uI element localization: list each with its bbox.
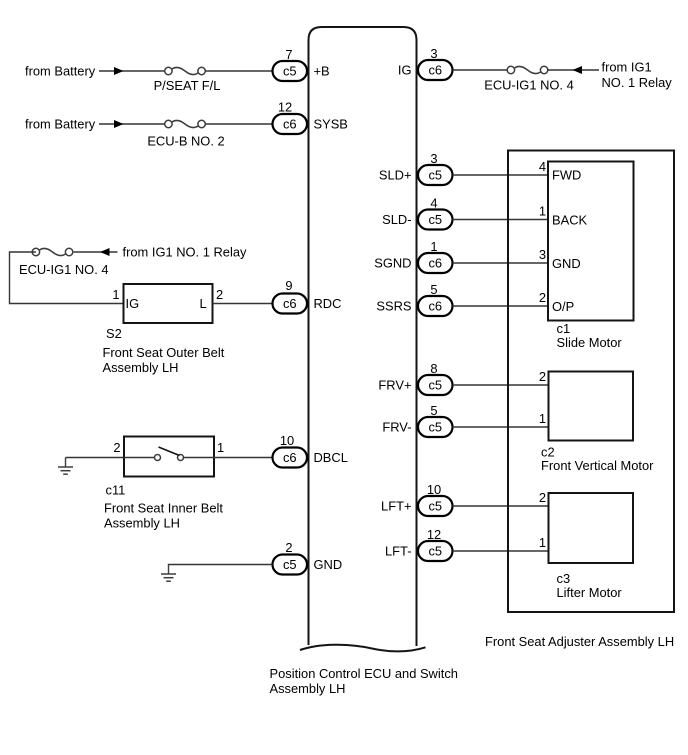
connector c5 (GND) bbox=[273, 555, 308, 575]
ground (GND) bbox=[161, 565, 176, 582]
svg-text:from IG1: from IG1 bbox=[602, 60, 652, 75]
svg-text:SLD+: SLD+ bbox=[379, 168, 412, 183]
svg-text:c6: c6 bbox=[283, 450, 297, 465]
svg-text:ECU-B NO. 2: ECU-B NO. 2 bbox=[147, 134, 224, 149]
S2 box: buckle switch (IG / L) bbox=[124, 284, 213, 323]
wire: IG connector to ECU-IG1 NO. 4 fuse bbox=[453, 69, 508, 71]
label: S2 Front Seat Outer Belt Assembly LH bbox=[103, 326, 225, 375]
wire: LFT- to lifter motor pin 1 bbox=[453, 550, 549, 552]
svg-text:2: 2 bbox=[216, 287, 223, 302]
svg-text:Front Seat Outer Belt: Front Seat Outer Belt bbox=[103, 345, 225, 360]
wire: from Battery to P/SEAT F/L fuse bbox=[99, 70, 165, 72]
svg-text:c11: c11 bbox=[106, 483, 126, 498]
wire: fuse to from IG1 NO. 1 Relay bbox=[548, 69, 600, 71]
wire: SLD- to slide motor pin 1 bbox=[453, 219, 549, 221]
svg-text:c5: c5 bbox=[428, 378, 442, 393]
svg-text:1: 1 bbox=[539, 204, 546, 219]
svg-text:2: 2 bbox=[113, 440, 120, 455]
connector c6 (IG) bbox=[418, 60, 453, 80]
front seat adjuster assembly box bbox=[508, 151, 674, 613]
svg-text:from Battery: from Battery bbox=[25, 117, 96, 132]
ground (inner belt switch) bbox=[58, 458, 73, 475]
wire: FRV- to front vertical motor pin 1 bbox=[453, 426, 549, 428]
connector c5 (LFT+) bbox=[418, 496, 453, 516]
svg-text:GND: GND bbox=[552, 256, 581, 271]
label: c1 Slide Motor bbox=[557, 321, 623, 350]
svg-text:Assembly LH: Assembly LH bbox=[103, 360, 179, 375]
svg-text:c5: c5 bbox=[428, 499, 442, 514]
svg-text:P/SEAT F/L: P/SEAT F/L bbox=[154, 78, 221, 93]
svg-text:Front Seat Inner Belt: Front Seat Inner Belt bbox=[104, 501, 223, 516]
svg-text:4: 4 bbox=[539, 159, 546, 174]
connector c6 (SYSB) bbox=[273, 114, 308, 134]
wire: LFT+ to lifter motor pin 2 bbox=[453, 505, 549, 507]
svg-text:1: 1 bbox=[539, 411, 546, 426]
slide motor box c1 bbox=[548, 162, 634, 321]
switch contacts and blade (c11) bbox=[124, 447, 214, 461]
svg-text:from Battery: from Battery bbox=[25, 64, 96, 79]
svg-text:10: 10 bbox=[427, 482, 441, 497]
svg-text:FRV-: FRV- bbox=[382, 420, 411, 435]
front vertical motor box c2 bbox=[549, 372, 634, 441]
label: Position Control ECU and Switch Assembly LH bbox=[270, 666, 458, 696]
arrow: flow from IG1 NO. 1 Relay bbox=[573, 66, 583, 74]
svg-text:Assembly LH: Assembly LH bbox=[270, 681, 346, 696]
svg-text:IG: IG bbox=[398, 63, 412, 78]
svg-text:7: 7 bbox=[285, 47, 292, 62]
svg-text:ECU-IG1 NO. 4: ECU-IG1 NO. 4 bbox=[19, 262, 109, 277]
svg-text:LFT+: LFT+ bbox=[381, 499, 411, 514]
svg-text:L: L bbox=[200, 296, 207, 311]
svg-text:c5: c5 bbox=[428, 212, 442, 227]
svg-text:BACK: BACK bbox=[552, 213, 588, 228]
svg-text:5: 5 bbox=[430, 282, 437, 297]
svg-text:1: 1 bbox=[112, 287, 119, 302]
svg-text:S2: S2 bbox=[106, 326, 122, 341]
svg-text:SLD-: SLD- bbox=[382, 212, 411, 227]
svg-text:RDC: RDC bbox=[314, 296, 342, 311]
wire: from Battery to ECU-B NO. 2 fuse bbox=[99, 123, 165, 125]
svg-text:GND: GND bbox=[314, 557, 343, 572]
fuse ECU-IG1 NO. 4 (S2 branch) bbox=[32, 248, 73, 255]
svg-text:Lifter Motor: Lifter Motor bbox=[557, 585, 623, 600]
svg-text:c5: c5 bbox=[428, 420, 442, 435]
wire: SGND to slide motor pin 3 bbox=[453, 262, 549, 264]
svg-text:c3: c3 bbox=[557, 571, 571, 586]
svg-text:2: 2 bbox=[285, 540, 292, 555]
svg-text:12: 12 bbox=[427, 527, 441, 542]
svg-text:3: 3 bbox=[430, 151, 437, 166]
svg-text:Slide Motor: Slide Motor bbox=[557, 335, 623, 350]
svg-text:c6: c6 bbox=[428, 299, 442, 314]
wire: GND connector to ground bbox=[169, 564, 273, 567]
ECU box: Position Control ECU and Switch Assembly LH bbox=[300, 27, 426, 651]
svg-text:9: 9 bbox=[285, 278, 292, 293]
fuse ECU-B NO. 2 bbox=[165, 120, 206, 127]
svg-text:12: 12 bbox=[278, 100, 292, 115]
svg-text:from IG1 NO. 1 Relay: from IG1 NO. 1 Relay bbox=[123, 245, 247, 260]
svg-text:2: 2 bbox=[539, 369, 546, 384]
wire: fuse down to S2 pin 1 bbox=[10, 252, 124, 304]
wire: SSRS to slide motor pin 2 bbox=[453, 305, 549, 307]
svg-text:Front Seat Adjuster Assembly L: Front Seat Adjuster Assembly LH bbox=[485, 634, 674, 649]
wire: SLD+ to slide motor pin 4 bbox=[453, 174, 549, 176]
svg-text:c5: c5 bbox=[283, 557, 297, 572]
svg-text:Front Vertical Motor: Front Vertical Motor bbox=[541, 458, 654, 473]
svg-text:2: 2 bbox=[539, 290, 546, 305]
svg-text:LFT-: LFT- bbox=[385, 544, 412, 559]
fuse ECU-IG1 NO. 4 bbox=[507, 66, 548, 73]
connector c6 (SSRS) bbox=[418, 296, 453, 316]
wire: S2 pin 2 to RDC connector bbox=[213, 303, 273, 305]
arrow: flow from IG1 NO. 1 Relay (S2 branch) bbox=[100, 248, 110, 256]
svg-text:c6: c6 bbox=[283, 296, 297, 311]
svg-text:DBCL: DBCL bbox=[314, 450, 348, 465]
svg-text:c5: c5 bbox=[283, 64, 297, 79]
svg-text:4: 4 bbox=[430, 196, 437, 211]
svg-text:c6: c6 bbox=[428, 256, 442, 271]
svg-text:5: 5 bbox=[430, 403, 437, 418]
label: c11 Front Seat Inner Belt Assembly LH bbox=[104, 483, 223, 531]
svg-text:c1: c1 bbox=[557, 321, 571, 336]
svg-text:O/P: O/P bbox=[552, 299, 574, 314]
svg-text:FWD: FWD bbox=[552, 168, 581, 183]
svg-text:SSRS: SSRS bbox=[376, 299, 411, 314]
connector c6 (DBCL) bbox=[273, 448, 308, 468]
connector c5 (SLD-) bbox=[418, 210, 453, 230]
svg-text:Position Control ECU and Switc: Position Control ECU and Switch bbox=[270, 666, 458, 681]
svg-text:c6: c6 bbox=[428, 63, 442, 78]
svg-text:NO. 1 Relay: NO. 1 Relay bbox=[602, 75, 673, 90]
connector c5 (SLD+) bbox=[418, 165, 453, 185]
svg-text:c5: c5 bbox=[428, 544, 442, 559]
svg-text:3: 3 bbox=[430, 46, 437, 61]
lifter motor box c3 bbox=[549, 493, 634, 563]
arrow: flow into ECU-B NO. 2 bbox=[114, 120, 124, 128]
svg-text:ECU-IG1 NO. 4: ECU-IG1 NO. 4 bbox=[484, 78, 574, 93]
connector c5 (+B) bbox=[273, 61, 308, 81]
fuse P/SEAT F/L bbox=[165, 67, 206, 74]
wire: ground to c11 pin 2 bbox=[66, 457, 125, 459]
wire: fuse to connector c6 pin 12 bbox=[206, 123, 273, 125]
connector c5 (LFT-) bbox=[418, 541, 453, 561]
label: c2 Front Vertical Motor bbox=[541, 445, 654, 474]
svg-text:c5: c5 bbox=[428, 168, 442, 183]
svg-text:2: 2 bbox=[539, 490, 546, 505]
svg-text:SYSB: SYSB bbox=[314, 117, 348, 132]
svg-text:1: 1 bbox=[217, 440, 224, 455]
svg-text:c6: c6 bbox=[283, 117, 297, 132]
connector c6 (RDC) bbox=[273, 294, 308, 314]
wire: FRV+ to front vertical motor pin 2 bbox=[453, 384, 549, 386]
svg-text:8: 8 bbox=[430, 361, 437, 376]
svg-text:+B: +B bbox=[314, 64, 330, 79]
svg-text:SGND: SGND bbox=[374, 256, 411, 271]
svg-text:Assembly LH: Assembly LH bbox=[104, 516, 180, 531]
svg-text:3: 3 bbox=[539, 247, 546, 262]
connector c5 (FRV-) bbox=[418, 417, 453, 437]
wire: IG1 relay feed to ECU-IG1 NO. 4 fuse (S2 branch) bbox=[74, 251, 118, 253]
wire: fuse to connector c5 pin 7 bbox=[206, 70, 273, 72]
connector c6 (SGND) bbox=[418, 253, 453, 273]
connector c5 (FRV+) bbox=[418, 375, 453, 395]
arrow: flow into P/SEAT F/L bbox=[114, 67, 124, 75]
svg-text:IG: IG bbox=[126, 296, 140, 311]
text: from IG1 NO. 1 Relay (two lines) bbox=[602, 60, 673, 91]
svg-text:1: 1 bbox=[539, 535, 546, 550]
wire: c11 pin 1 to DBCL connector bbox=[214, 457, 273, 459]
c11 box: inner belt switch bbox=[124, 437, 214, 477]
svg-text:FRV+: FRV+ bbox=[378, 378, 411, 393]
svg-text:1: 1 bbox=[430, 239, 437, 254]
svg-text:10: 10 bbox=[280, 433, 294, 448]
label: c3 Lifter Motor bbox=[557, 571, 623, 600]
